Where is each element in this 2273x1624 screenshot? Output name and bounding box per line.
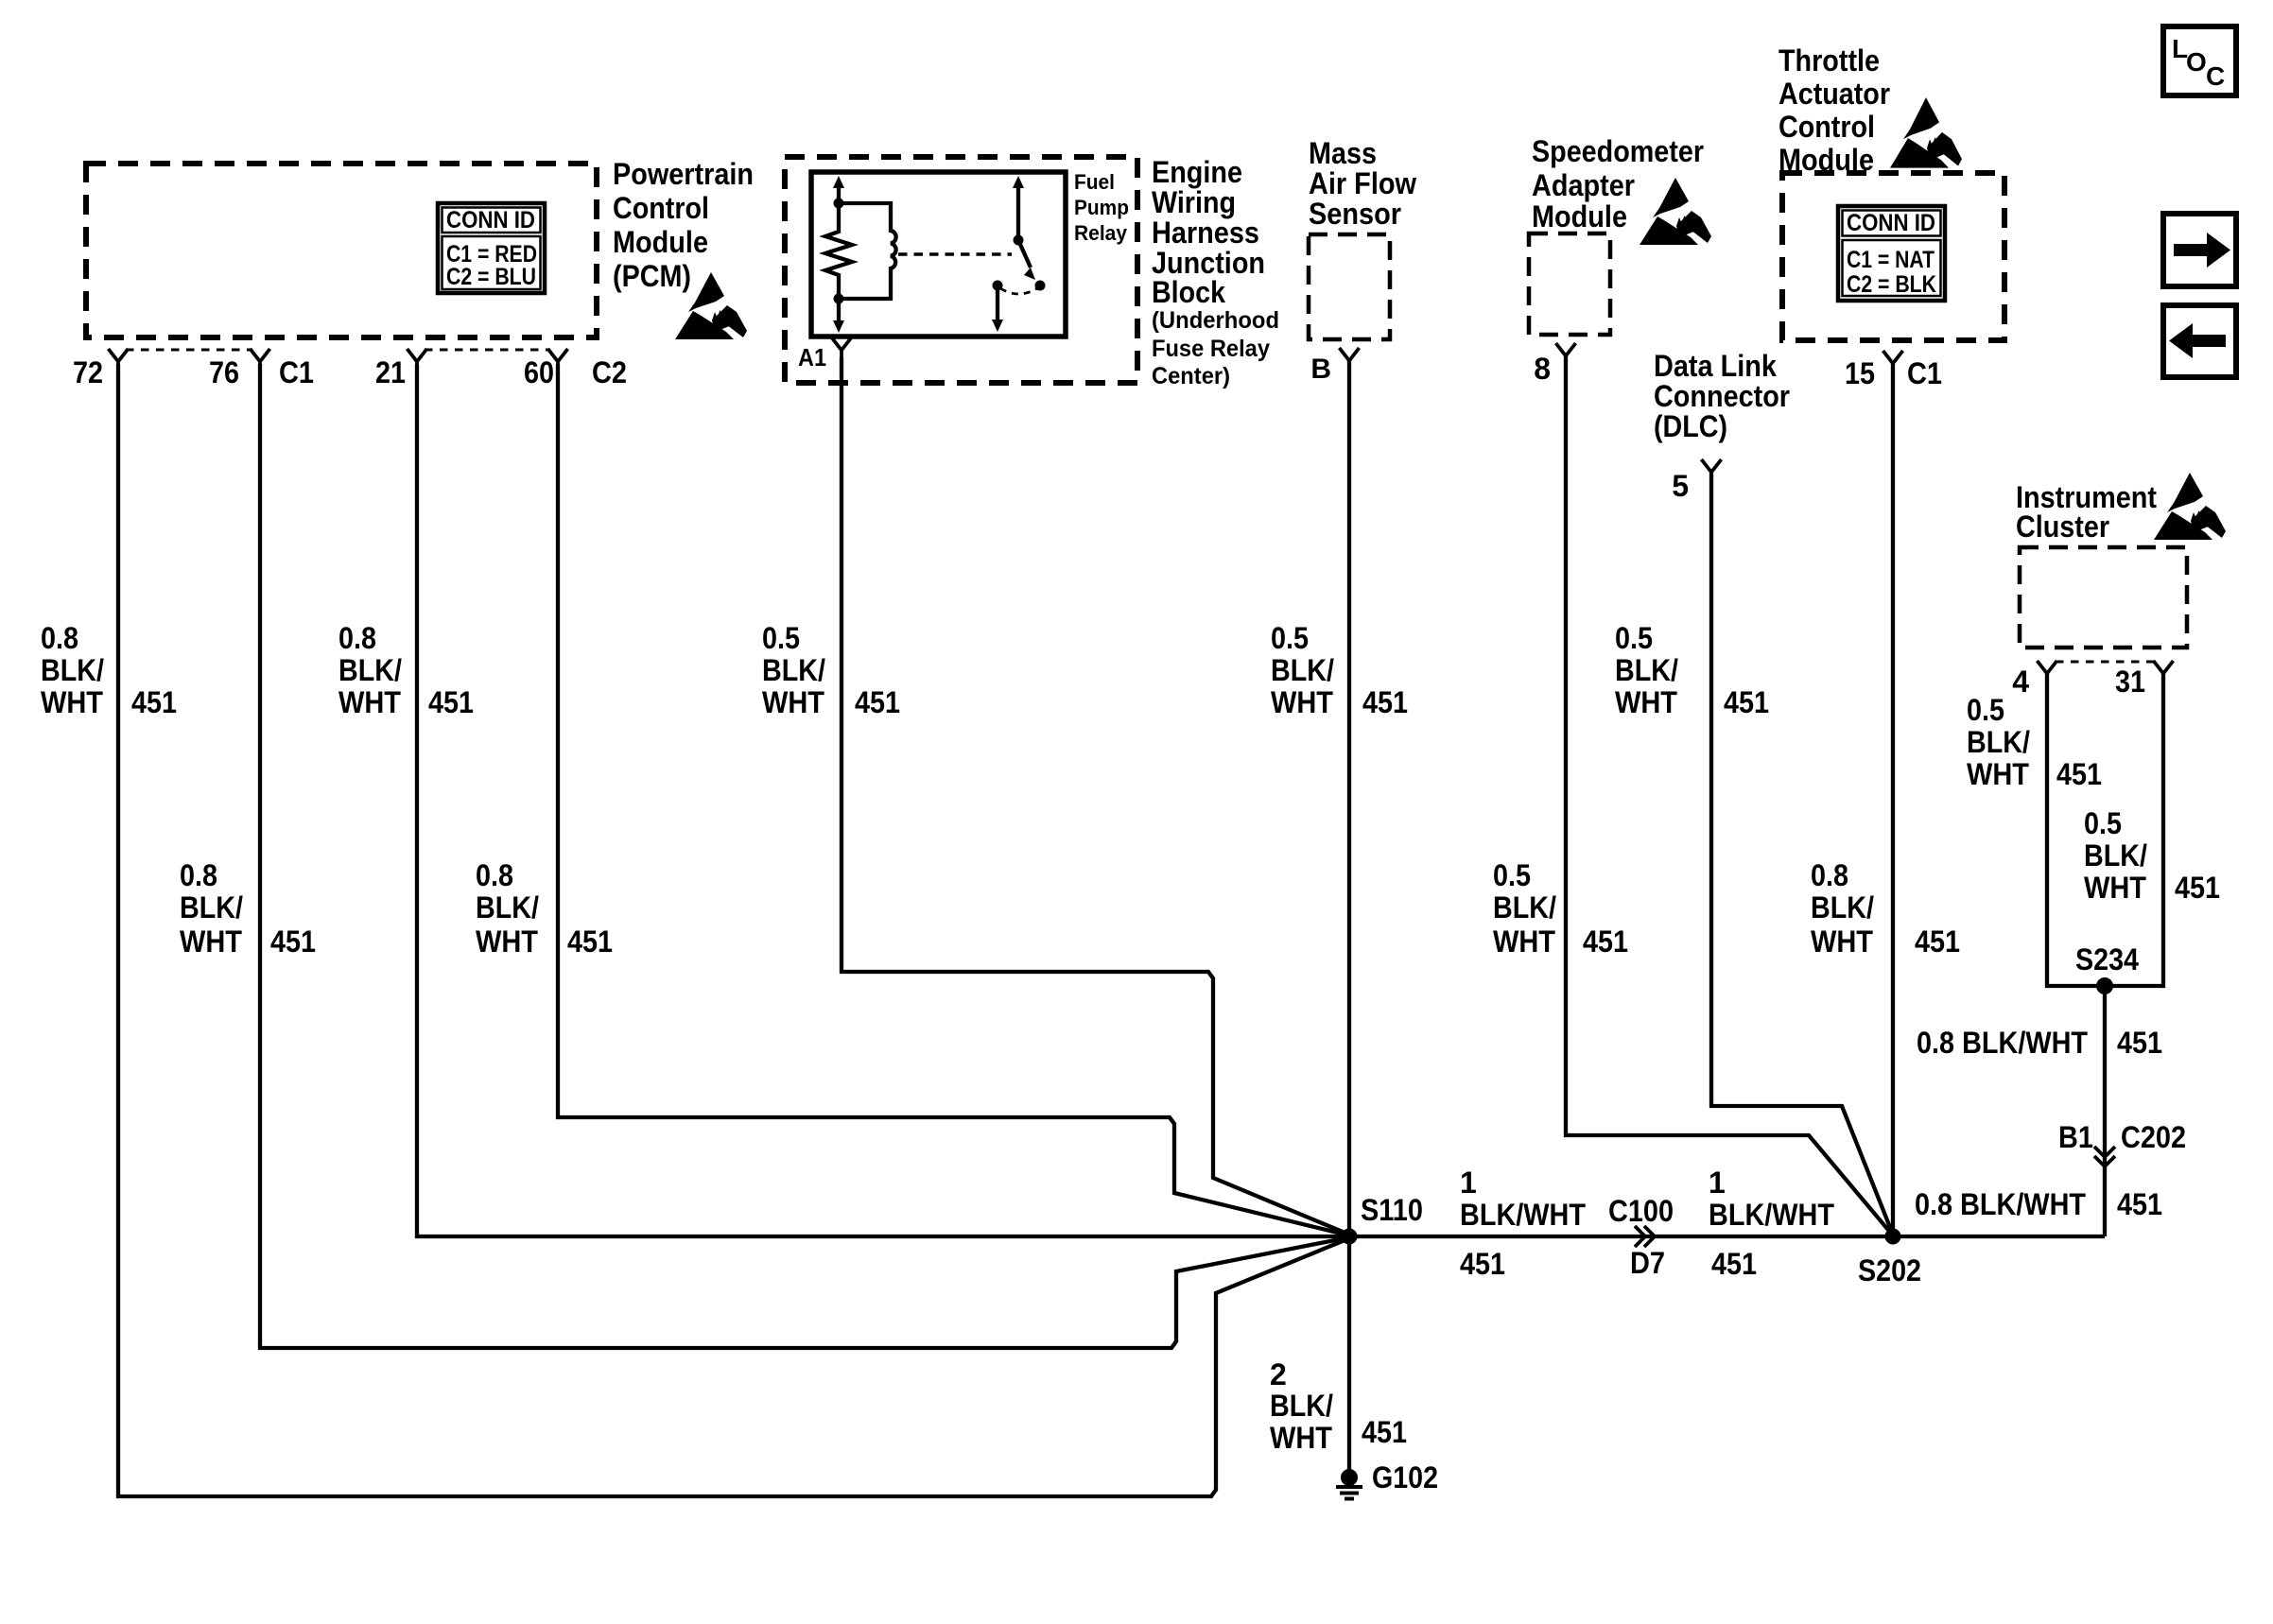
- svg-text:1: 1: [1460, 1166, 1477, 1200]
- wire: PCM 76 to S110 (0.8 BLK/WHT 451): [260, 364, 1349, 1348]
- svg-text:Throttle: Throttle: [1778, 43, 1880, 78]
- svg-text:C2 = BLU: C2 = BLU: [446, 264, 536, 290]
- svg-text:451: 451: [567, 924, 613, 959]
- svg-text:WHT: WHT: [1967, 757, 2029, 791]
- label 0.5 BLK/WHT wire DLC 5: [1615, 621, 1678, 719]
- wire: cluster pin 4 to S234 (0.5 BLK/WHT 451): [2047, 671, 2105, 986]
- svg-text:Fuel: Fuel: [1074, 170, 1115, 194]
- pin 4 connector: [2038, 661, 2057, 682]
- svg-text:WHT: WHT: [1811, 924, 1873, 959]
- cluster connector dashed link pins 4-31: [2056, 661, 2156, 664]
- svg-text:WHT: WHT: [180, 924, 242, 959]
- svg-text:5: 5: [1672, 469, 1689, 503]
- svg-text:BLK/: BLK/: [338, 653, 402, 687]
- svg-text:Module: Module: [613, 225, 708, 259]
- Powertrain Control Module (PCM) dashed box: [86, 164, 597, 337]
- svg-text:Adapter: Adapter: [1532, 168, 1635, 202]
- svg-text:C2: C2: [592, 355, 627, 389]
- label 0.8 BLK/WHT wire 21: [338, 621, 402, 719]
- relay NO contact node: [993, 281, 1003, 291]
- pin 72 connector: [109, 349, 129, 370]
- svg-text:451: 451: [1460, 1247, 1505, 1281]
- svg-text:B1: B1: [2058, 1120, 2093, 1154]
- svg-text:BLK/: BLK/: [1493, 890, 1556, 924]
- pin 5 connector: [1702, 459, 1722, 480]
- pin 31 connector: [2154, 661, 2174, 682]
- label 0.5 BLK/WHT wire A1: [762, 621, 825, 719]
- svg-text:BLK/: BLK/: [1615, 653, 1678, 687]
- svg-text:C: C: [2206, 61, 2225, 91]
- ESD symbol PCM: [675, 272, 747, 339]
- svg-text:Connector: Connector: [1654, 379, 1790, 413]
- svg-text:0.8 BLK/WHT: 0.8 BLK/WHT: [1917, 1026, 2088, 1060]
- svg-text:C1: C1: [279, 355, 314, 389]
- svg-text:S234: S234: [2075, 942, 2139, 976]
- relay switch arm end node: [1035, 281, 1046, 291]
- svg-text:1: 1: [1709, 1166, 1726, 1200]
- svg-text:451: 451: [270, 924, 316, 959]
- wire: cluster pin 31 to S234 (0.5 BLK/WHT 451): [2105, 671, 2163, 986]
- svg-text:451: 451: [1711, 1247, 1757, 1281]
- svg-text:Data Link: Data Link: [1654, 349, 1777, 383]
- pin 21 connector: [408, 349, 427, 370]
- ESD symbol instrument cluster: [2154, 473, 2226, 540]
- svg-text:0.8 BLK/WHT: 0.8 BLK/WHT: [1915, 1187, 2086, 1221]
- svg-text:CONN ID: CONN ID: [446, 207, 535, 233]
- svg-text:0.8: 0.8: [338, 621, 376, 655]
- svg-text:BLK/: BLK/: [1967, 725, 2030, 759]
- Instrument Cluster label: [2016, 480, 2157, 544]
- Throttle Actuator Control Module label: [1778, 43, 1890, 177]
- svg-text:BLK/: BLK/: [1811, 890, 1874, 924]
- svg-text:S110: S110: [1361, 1193, 1423, 1227]
- wire: speedometer 8 to S202 (0.5 BLK/WHT 451): [1566, 355, 1893, 1235]
- svg-text:WHT: WHT: [2084, 871, 2146, 905]
- svg-text:BLK/WHT: BLK/WHT: [1709, 1198, 1834, 1232]
- svg-text:451: 451: [2117, 1026, 2162, 1060]
- svg-text:451: 451: [855, 685, 900, 719]
- svg-text:451: 451: [2117, 1187, 2162, 1221]
- svg-text:BLK/: BLK/: [1270, 1389, 1333, 1423]
- svg-text:Module: Module: [1532, 199, 1627, 233]
- svg-text:0.5: 0.5: [2084, 806, 2122, 840]
- svg-text:0.8: 0.8: [476, 858, 513, 892]
- wire: DLC 5 to S202 (0.5 BLK/WHT 451): [1711, 473, 1893, 1235]
- Mass Air Flow Sensor dashed box: [1309, 234, 1390, 339]
- connector C100 symbol: [1635, 1226, 1655, 1247]
- svg-text:WHT: WHT: [1493, 924, 1555, 959]
- svg-text:D7: D7: [1630, 1246, 1665, 1280]
- svg-text:S202: S202: [1858, 1253, 1921, 1287]
- svg-text:BLK/: BLK/: [476, 890, 539, 924]
- node: coil top junction: [834, 199, 844, 209]
- svg-text:(PCM): (PCM): [613, 259, 691, 293]
- svg-text:Control: Control: [613, 191, 709, 225]
- svg-text:451: 451: [2056, 757, 2102, 791]
- svg-text:WHT: WHT: [41, 685, 103, 719]
- svg-text:WHT: WHT: [338, 685, 401, 719]
- connector C202 symbol: [2094, 1147, 2115, 1166]
- TAC module dashed box: [1782, 173, 2004, 340]
- svg-text:C2 = BLK: C2 = BLK: [1847, 271, 1936, 298]
- svg-text:C100: C100: [1608, 1194, 1674, 1228]
- svg-text:60: 60: [524, 355, 554, 389]
- wire: MAF B through S110 to G102 (451 BLK/WHT): [1347, 360, 1351, 1471]
- TAC CONN ID table: [1838, 206, 1945, 301]
- label 0.5 BLK/WHT cluster pin 31: [2084, 806, 2147, 905]
- svg-text:0.5: 0.5: [1271, 621, 1309, 655]
- label 0.8 BLK/WHT wire 72: [41, 621, 104, 719]
- svg-text:(DLC): (DLC): [1654, 409, 1727, 443]
- ESD symbol TAC: [1890, 97, 1962, 168]
- svg-text:Center): Center): [1152, 363, 1230, 389]
- svg-text:BLK/: BLK/: [2084, 838, 2147, 872]
- relay switched output arrow: [992, 289, 1003, 332]
- pin B connector: [1340, 348, 1360, 369]
- svg-text:0.5: 0.5: [1493, 858, 1531, 892]
- svg-text:451: 451: [1362, 685, 1408, 719]
- connector C2 dashed link pins 21-60: [425, 349, 550, 352]
- relay switch pivot node: [1014, 235, 1024, 246]
- splice S234: [2096, 977, 2113, 994]
- svg-text:BLK/: BLK/: [762, 653, 825, 687]
- svg-text:Air Flow: Air Flow: [1309, 166, 1416, 200]
- pin 60 connector: [548, 349, 568, 370]
- svg-text:BLK/: BLK/: [41, 653, 104, 687]
- label 0.5 BLK/WHT wire MAF B: [1271, 621, 1334, 719]
- svg-text:C1: C1: [1907, 356, 1942, 390]
- svg-text:451: 451: [2175, 871, 2220, 905]
- svg-text:0.5: 0.5: [1967, 693, 2004, 727]
- svg-text:WHT: WHT: [476, 924, 538, 959]
- label 0.8 BLK/WHT wire TAC 15: [1811, 858, 1874, 959]
- wire: PCM 60 to S110 (0.8 BLK/WHT 451): [558, 364, 1349, 1235]
- splice S202: [1885, 1229, 1901, 1245]
- svg-text:Mass: Mass: [1309, 136, 1377, 170]
- svg-text:Wiring: Wiring: [1152, 185, 1236, 219]
- svg-text:WHT: WHT: [1271, 685, 1333, 719]
- svg-text:Pump: Pump: [1074, 196, 1129, 219]
- pin 15 connector: [1883, 351, 1903, 371]
- svg-text:A1: A1: [798, 343, 826, 371]
- svg-text:0.8: 0.8: [1811, 858, 1848, 892]
- splice S110: [1342, 1229, 1358, 1245]
- label 1 BLK/WHT segment C100-S202: [1709, 1166, 1834, 1232]
- Mass Air Flow Sensor label: [1309, 136, 1416, 231]
- relay coil output to A1 arrow: [833, 299, 844, 333]
- LOC legend box: [2163, 26, 2236, 95]
- svg-text:451: 451: [428, 685, 474, 719]
- svg-text:4: 4: [2012, 665, 2029, 699]
- svg-text:WHT: WHT: [1270, 1421, 1332, 1455]
- svg-text:451: 451: [1362, 1415, 1407, 1449]
- Engine Wiring Harness Junction Block label: [1152, 155, 1279, 389]
- label 0.5 BLK/WHT cluster pin 4: [1967, 693, 2030, 791]
- svg-text:2: 2: [1270, 1357, 1287, 1391]
- svg-text:0.8: 0.8: [41, 621, 78, 655]
- Engine Wiring Harness Junction Block dashed box: [785, 157, 1137, 383]
- svg-text:451: 451: [1915, 924, 1960, 959]
- svg-text:BLK/: BLK/: [180, 890, 243, 924]
- svg-text:C1 = NAT: C1 = NAT: [1847, 247, 1935, 273]
- Speedometer Adapter Module label: [1532, 134, 1704, 233]
- wire: TAC 15 to S202 (0.8 BLK/WHT 451): [1891, 364, 1895, 1236]
- label 0.5 BLK/WHT wire speedometer 8: [1493, 858, 1556, 959]
- Fuel Pump Relay label: [1074, 170, 1129, 245]
- relay actuation dashed link: [898, 252, 1012, 255]
- svg-text:21: 21: [375, 355, 406, 389]
- svg-text:G102: G102: [1372, 1460, 1438, 1494]
- connector C1 dashed link pins 72-76: [126, 349, 252, 352]
- right arrow legend box: [2163, 214, 2236, 286]
- label 1 BLK/WHT segment S110-C100: [1460, 1166, 1586, 1232]
- label 0.8 BLK/WHT wire 76: [180, 858, 243, 959]
- relay contact travel dashed arc: [1000, 288, 1037, 294]
- Data Link Connector (DLC) label: [1654, 349, 1790, 443]
- svg-text:76: 76: [209, 355, 239, 389]
- pin A1 connector: [832, 337, 852, 358]
- wire: PCM 72 to S110 (0.8 BLK/WHT 451): [118, 364, 1349, 1496]
- wire: PCM 21 to S110 (0.8 BLK/WHT 451): [417, 364, 1349, 1236]
- svg-text:0.8: 0.8: [180, 858, 217, 892]
- pin 8 connector: [1556, 343, 1576, 364]
- svg-text:O: O: [2186, 47, 2207, 77]
- svg-text:Block: Block: [1152, 275, 1225, 309]
- svg-text:Control: Control: [1778, 110, 1875, 144]
- pin 76 connector: [251, 349, 270, 370]
- svg-text:451: 451: [1583, 924, 1628, 959]
- svg-text:451: 451: [131, 685, 177, 719]
- node: coil bottom junction: [834, 294, 844, 304]
- relay coil supply terminal arrow: [833, 176, 844, 204]
- svg-text:WHT: WHT: [1615, 685, 1677, 719]
- svg-text:15: 15: [1845, 356, 1875, 390]
- svg-text:BLK/WHT: BLK/WHT: [1460, 1198, 1586, 1232]
- svg-text:Fuse Relay: Fuse Relay: [1152, 336, 1270, 362]
- svg-text:(Underhood: (Underhood: [1152, 307, 1279, 334]
- svg-text:WHT: WHT: [762, 685, 824, 719]
- svg-text:Harness: Harness: [1152, 216, 1259, 250]
- svg-text:0.5: 0.5: [762, 621, 800, 655]
- left arrow legend box: [2163, 305, 2236, 377]
- PCM label: [613, 157, 754, 293]
- svg-text:BLK/: BLK/: [1271, 653, 1334, 687]
- svg-text:Actuator: Actuator: [1778, 77, 1890, 111]
- Speedometer Adapter Module dashed box: [1529, 233, 1610, 335]
- relay switch movable arm: [1018, 240, 1035, 280]
- svg-text:CONN ID: CONN ID: [1847, 210, 1935, 236]
- wire: S110 to S202 to C202 riser (1 BLK/WHT 451): [1349, 1235, 2105, 1238]
- label 0.8 BLK/WHT wire 60: [476, 858, 539, 959]
- ground G102 symbol: [1336, 1469, 1362, 1499]
- svg-text:Sensor: Sensor: [1309, 197, 1401, 231]
- svg-text:31: 31: [2115, 665, 2145, 699]
- svg-text:Powertrain: Powertrain: [613, 157, 754, 191]
- PCM CONN ID table: [438, 203, 545, 293]
- fuel pump relay box: [811, 172, 1066, 337]
- svg-text:72: 72: [73, 355, 103, 389]
- relay coil: [839, 203, 896, 299]
- wire: relay A1 to S110 (0.5 BLK/WHT 451): [842, 357, 1349, 1235]
- svg-text:8: 8: [1534, 352, 1551, 386]
- svg-text:Cluster: Cluster: [2016, 510, 2109, 544]
- label 2 BLK/WHT ground wire: [1270, 1357, 1333, 1455]
- svg-text:Engine: Engine: [1152, 155, 1242, 189]
- svg-text:B: B: [1310, 354, 1331, 385]
- svg-text:Speedometer: Speedometer: [1532, 134, 1704, 168]
- resistor (relay clamping): [825, 203, 852, 299]
- Instrument Cluster dashed box: [2020, 547, 2187, 648]
- wire: S234 through C202 to main line (0.8 BLK/WHT 451): [2103, 986, 2107, 1236]
- svg-text:C202: C202: [2121, 1120, 2186, 1154]
- relay switch common terminal arrow: [1013, 176, 1024, 240]
- svg-text:Relay: Relay: [1074, 221, 1127, 245]
- ESD symbol speedometer: [1640, 178, 1711, 245]
- svg-text:451: 451: [1724, 685, 1769, 719]
- svg-text:0.5: 0.5: [1615, 621, 1653, 655]
